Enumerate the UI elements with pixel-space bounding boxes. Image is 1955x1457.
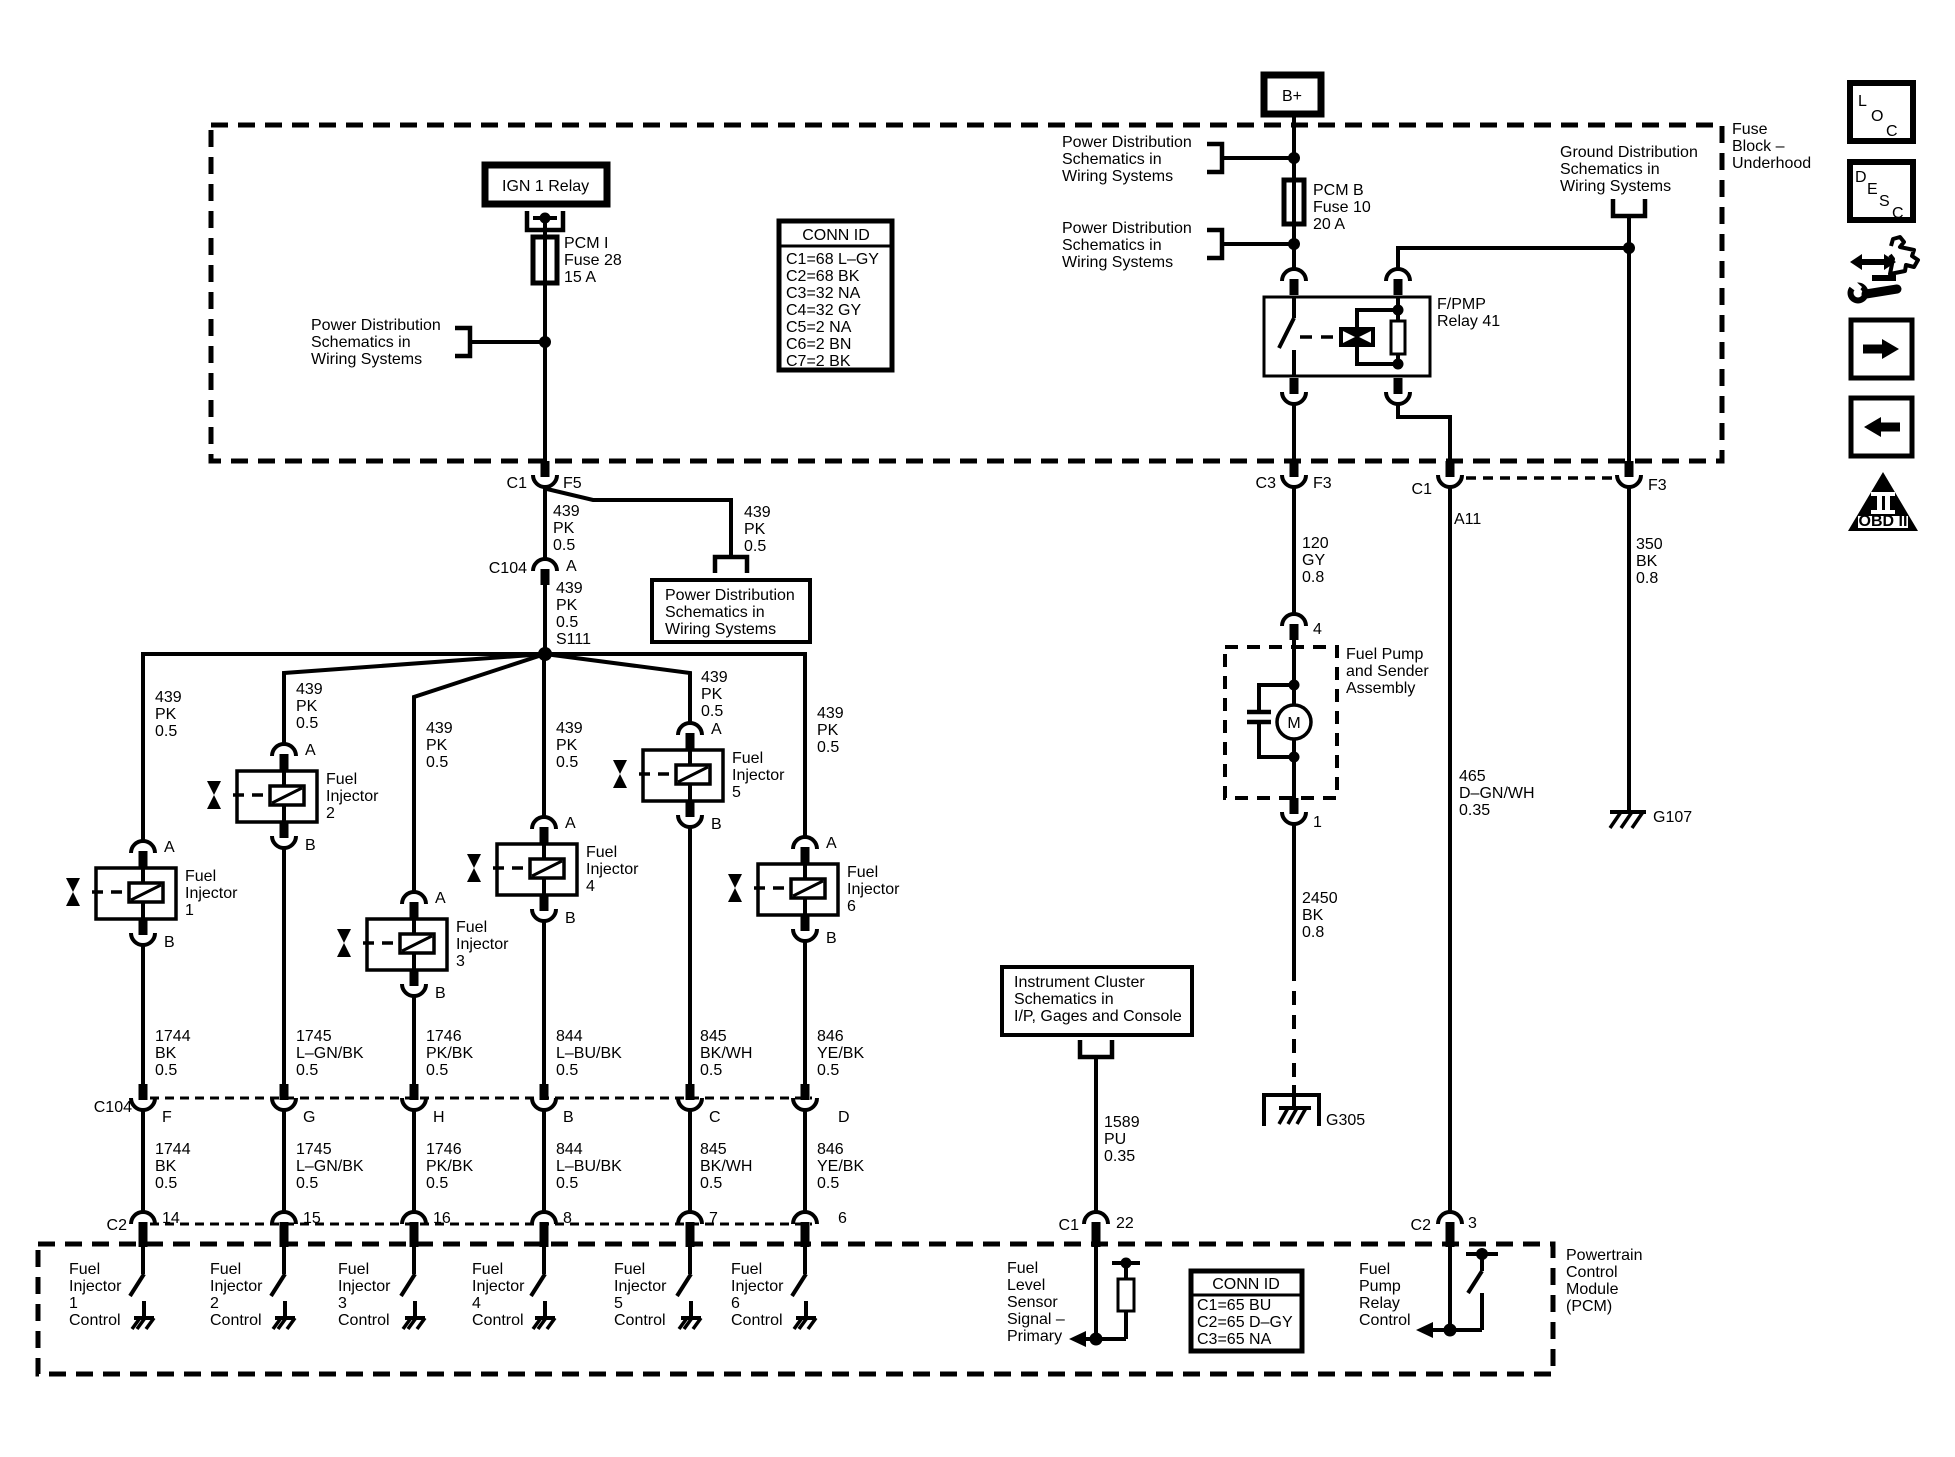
svg-text:2450: 2450 <box>1302 890 1338 907</box>
connector row C104 dashed line <box>150 1097 812 1100</box>
svg-text:Injector: Injector <box>69 1278 122 1295</box>
fuel injector 2 control switch <box>271 1247 285 1318</box>
ground distribution wire down to F3 <box>1627 216 1631 461</box>
svg-text:Fuel: Fuel <box>732 750 763 767</box>
svg-text:Relay 41: Relay 41 <box>1437 313 1500 330</box>
svg-text:F/PMP: F/PMP <box>1437 296 1486 313</box>
svg-text:15: 15 <box>303 1210 321 1227</box>
svg-text:Fuel: Fuel <box>210 1261 241 1278</box>
svg-text:Fuel: Fuel <box>338 1261 369 1278</box>
svg-text:6: 6 <box>731 1295 740 1312</box>
svg-text:0.8: 0.8 <box>1302 924 1324 941</box>
Instrument Cluster reference box <box>1002 967 1192 1035</box>
svg-text:Fuel: Fuel <box>185 868 216 885</box>
svg-text:Fuse 10: Fuse 10 <box>1313 199 1371 216</box>
Power Distribution Schematics in Wiring Systems reference box <box>652 580 810 642</box>
svg-text:C6=2 BN: C6=2 BN <box>786 336 851 353</box>
svg-text:Powertrain: Powertrain <box>1566 1247 1642 1264</box>
svg-text:C104: C104 <box>94 1099 132 1116</box>
svg-text:PK: PK <box>744 521 766 538</box>
ground (injector 2 control) <box>275 1316 295 1320</box>
svg-text:O: O <box>1871 108 1883 125</box>
wire injector 4 to C104 <box>542 921 546 1084</box>
svg-text:PK: PK <box>556 597 578 614</box>
svg-text:Wiring Systems: Wiring Systems <box>1560 178 1671 195</box>
ground (injector 5 control) <box>681 1316 701 1320</box>
wire S111 to injector 5 column <box>545 654 690 723</box>
wire injector 2 to C104 <box>282 848 286 1084</box>
svg-text:14: 14 <box>162 1210 180 1227</box>
svg-text:439: 439 <box>701 669 728 686</box>
svg-text:C2: C2 <box>1411 1217 1432 1234</box>
svg-text:C3=65 NA: C3=65 NA <box>1197 1331 1272 1348</box>
svg-text:Fuel: Fuel <box>847 864 878 881</box>
svg-text:Assembly: Assembly <box>1346 680 1415 697</box>
svg-text:Sensor: Sensor <box>1007 1294 1058 1311</box>
svg-text:Fuse: Fuse <box>1732 121 1768 138</box>
wire relay to C3/F3 <box>1292 404 1296 461</box>
svg-text:0.5: 0.5 <box>296 1175 318 1192</box>
svg-text:L: L <box>1858 93 1867 110</box>
svg-text:Underhood: Underhood <box>1732 155 1811 172</box>
wire S111 to injector 1 column <box>143 654 545 841</box>
svg-text:439: 439 <box>556 580 583 597</box>
junction dot <box>1623 242 1635 254</box>
ground (injector 4 control) <box>535 1316 555 1320</box>
svg-text:0.5: 0.5 <box>556 614 578 631</box>
connector C104 pin D <box>801 1084 810 1100</box>
svg-text:1744: 1744 <box>155 1141 191 1158</box>
svg-text:6: 6 <box>847 898 856 915</box>
wire 120 GY <box>1292 487 1296 614</box>
wire to C2 <box>141 1110 145 1212</box>
svg-text:YE/BK: YE/BK <box>817 1158 864 1175</box>
svg-text:439: 439 <box>296 681 323 698</box>
wire to C2 <box>542 1110 546 1212</box>
svg-text:Wiring Systems: Wiring Systems <box>311 351 422 368</box>
noise capacitor <box>1247 685 1294 757</box>
svg-text:16: 16 <box>433 1210 451 1227</box>
splice S111 <box>538 647 552 661</box>
svg-text:C3: C3 <box>1256 475 1277 492</box>
junction dot <box>1289 680 1300 691</box>
svg-text:Schematics in: Schematics in <box>1560 161 1660 178</box>
dashed connector link A11-F3 <box>1466 476 1613 480</box>
svg-text:Power Distribution: Power Distribution <box>1062 134 1192 151</box>
svg-text:PK: PK <box>426 737 448 754</box>
svg-text:4: 4 <box>1313 621 1322 638</box>
svg-text:Fuel: Fuel <box>456 919 487 936</box>
svg-text:7: 7 <box>709 1210 718 1227</box>
connector C1/F5 <box>541 461 550 477</box>
svg-text:0.8: 0.8 <box>1636 570 1658 587</box>
wire S111 to injector 3 column <box>414 654 545 892</box>
fuel injector 5 control switch <box>677 1247 691 1318</box>
svg-text:844: 844 <box>556 1028 583 1045</box>
svg-text:Fuel: Fuel <box>1007 1260 1038 1277</box>
svg-text:0.5: 0.5 <box>426 754 448 771</box>
svg-text:0.5: 0.5 <box>556 754 578 771</box>
svg-text:439: 439 <box>556 720 583 737</box>
wire into pump <box>1292 640 1296 705</box>
wire fuse to connector C1/F5 <box>543 283 547 461</box>
svg-text:Injector: Injector <box>456 936 509 953</box>
wire (unreferenced section, dashed) <box>1292 967 1296 1085</box>
svg-text:Fuel: Fuel <box>614 1261 645 1278</box>
svg-text:E: E <box>1867 181 1878 198</box>
svg-text:Relay: Relay <box>1359 1295 1400 1312</box>
svg-text:Control: Control <box>472 1312 524 1329</box>
svg-text:L–GN/BK: L–GN/BK <box>296 1158 364 1175</box>
svg-text:Instrument Cluster: Instrument Cluster <box>1014 974 1145 991</box>
svg-text:0.5: 0.5 <box>426 1062 448 1079</box>
svg-text:B: B <box>435 985 446 1002</box>
reference bracket <box>455 328 470 356</box>
svg-text:Schematics in: Schematics in <box>1014 991 1114 1008</box>
connector C104 pin F <box>139 1084 148 1100</box>
power feed B+ box <box>1264 75 1321 114</box>
svg-text:GY: GY <box>1302 552 1325 569</box>
svg-text:Ground Distribution: Ground Distribution <box>1560 144 1698 161</box>
svg-text:G: G <box>303 1109 315 1126</box>
svg-text:Schematics in: Schematics in <box>665 604 765 621</box>
terminal bar and junction dot <box>533 216 557 220</box>
connector F3 (ground wire) <box>1625 461 1634 477</box>
svg-text:439: 439 <box>426 720 453 737</box>
svg-text:B+: B+ <box>1282 88 1302 105</box>
svg-text:0.5: 0.5 <box>700 1062 722 1079</box>
svg-text:1: 1 <box>1313 814 1322 831</box>
svg-text:H: H <box>433 1109 445 1126</box>
svg-text:A: A <box>435 890 446 907</box>
svg-text:0.5: 0.5 <box>155 723 177 740</box>
svg-text:0.8: 0.8 <box>1302 569 1324 586</box>
svg-text:C: C <box>1886 123 1898 140</box>
svg-text:1744: 1744 <box>155 1028 191 1045</box>
connector C1/A11 <box>1446 461 1455 477</box>
svg-text:S111: S111 <box>556 631 591 648</box>
svg-text:F3: F3 <box>1313 475 1332 492</box>
icon LOC <box>1850 83 1913 141</box>
svg-text:439: 439 <box>817 705 844 722</box>
fuel injector 6 <box>728 837 838 941</box>
svg-text:B: B <box>711 816 722 833</box>
ground (injector 1 control) <box>134 1316 154 1320</box>
wire bracket to B+ wire <box>1222 156 1294 160</box>
junction dot <box>1288 238 1300 250</box>
icon DESC <box>1850 162 1913 222</box>
svg-text:PK: PK <box>556 737 578 754</box>
svg-text:Fuel: Fuel <box>731 1261 762 1278</box>
svg-text:C5=2 NA: C5=2 NA <box>786 319 852 336</box>
svg-text:Schematics in: Schematics in <box>311 334 411 351</box>
CONN ID table (PCM) <box>1191 1271 1302 1351</box>
svg-text:Fuel: Fuel <box>69 1261 100 1278</box>
wire bracket to main wire <box>470 340 545 344</box>
svg-text:Power Distribution: Power Distribution <box>311 317 441 334</box>
wire 439 PK to C104 <box>543 487 547 559</box>
connector C2 pin 14 <box>131 1212 155 1224</box>
fuel injector 2 <box>207 744 317 848</box>
svg-text:0.5: 0.5 <box>700 1175 722 1192</box>
svg-text:PK/BK: PK/BK <box>426 1045 473 1062</box>
svg-text:0.35: 0.35 <box>1459 802 1490 819</box>
svg-text:Schematics in: Schematics in <box>1062 151 1162 168</box>
ground (injector 3 control) <box>405 1316 425 1320</box>
svg-text:OBD II: OBD II <box>1859 513 1908 530</box>
svg-text:Injector: Injector <box>731 1278 784 1295</box>
wire injector 5 to C104 <box>688 827 692 1084</box>
svg-text:6: 6 <box>838 1210 847 1227</box>
svg-text:A11: A11 <box>1454 511 1481 528</box>
svg-text:BK/WH: BK/WH <box>700 1045 752 1062</box>
svg-text:Power Distribution: Power Distribution <box>1062 220 1192 237</box>
svg-text:Injector: Injector <box>614 1278 667 1295</box>
svg-text:439: 439 <box>744 504 771 521</box>
relay F/PMP Relay 41 <box>1264 269 1430 404</box>
svg-text:CONN ID: CONN ID <box>802 227 870 244</box>
wire C104 to splice S111 <box>543 585 547 654</box>
junction dot <box>539 336 551 348</box>
svg-text:1: 1 <box>185 902 194 919</box>
fuel injector 3 control switch <box>401 1247 415 1318</box>
svg-text:Control: Control <box>1566 1264 1618 1281</box>
svg-text:0.5: 0.5 <box>701 703 723 720</box>
svg-text:Injector: Injector <box>326 788 379 805</box>
signal arrow <box>1069 1331 1086 1347</box>
fuel pump relay driver switch <box>1466 1248 1498 1330</box>
svg-text:3: 3 <box>456 953 465 970</box>
wire motor to pin 1 <box>1292 739 1296 798</box>
svg-text:Injector: Injector <box>472 1278 525 1295</box>
svg-text:Wiring Systems: Wiring Systems <box>665 621 776 638</box>
wire injector 3 to C104 <box>412 996 416 1084</box>
IGN 1 Relay box <box>485 165 607 204</box>
svg-text:844: 844 <box>556 1141 583 1158</box>
CONN ID table (C104) <box>779 221 892 370</box>
connector C2 pin 8 <box>532 1212 556 1224</box>
reference bracket <box>1207 230 1222 258</box>
svg-text:C2=68 BK: C2=68 BK <box>786 268 860 285</box>
svg-text:PK/BK: PK/BK <box>426 1158 473 1175</box>
svg-text:B: B <box>563 1109 574 1126</box>
wire S111 to injector 6 column <box>545 654 805 837</box>
svg-text:439: 439 <box>553 503 580 520</box>
wire relay to fuse <box>543 218 547 239</box>
svg-text:0.5: 0.5 <box>556 1062 578 1079</box>
fuel injector 4 <box>467 817 577 921</box>
svg-text:846: 846 <box>817 1028 844 1045</box>
svg-text:0.5: 0.5 <box>426 1175 448 1192</box>
svg-text:3: 3 <box>1468 1215 1477 1232</box>
icon OBD II <box>1848 472 1918 531</box>
svg-text:A: A <box>164 839 175 856</box>
svg-text:0.5: 0.5 <box>556 1175 578 1192</box>
svg-text:1745: 1745 <box>296 1028 332 1045</box>
svg-text:A: A <box>711 721 722 738</box>
connector row C2 dashed line <box>150 1223 812 1226</box>
svg-text:PCM I: PCM I <box>564 235 608 252</box>
svg-text:C2=65 D–GY: C2=65 D–GY <box>1197 1314 1293 1331</box>
reference bracket <box>1613 199 1645 216</box>
svg-text:Wiring Systems: Wiring Systems <box>1062 168 1173 185</box>
connector C104 pin G <box>280 1084 289 1100</box>
wire relay to C1/A11 <box>1398 404 1450 461</box>
fuel pump motor M <box>1277 705 1311 739</box>
svg-text:PK: PK <box>553 520 575 537</box>
svg-text:Fuel: Fuel <box>1359 1261 1390 1278</box>
svg-text:0.5: 0.5 <box>817 1175 839 1192</box>
svg-text:Fuel: Fuel <box>326 771 357 788</box>
svg-text:(PCM): (PCM) <box>1566 1298 1612 1315</box>
svg-text:15 A: 15 A <box>564 269 596 286</box>
fuel injector 6 control switch <box>792 1247 806 1318</box>
svg-text:PCM B: PCM B <box>1313 182 1364 199</box>
reference bracket <box>1207 144 1222 172</box>
svg-text:C1: C1 <box>507 475 528 492</box>
svg-text:C104: C104 <box>489 560 527 577</box>
svg-text:C: C <box>1892 205 1904 222</box>
svg-text:G305: G305 <box>1326 1112 1365 1129</box>
svg-text:D: D <box>1855 169 1867 186</box>
svg-text:B: B <box>305 837 316 854</box>
svg-text:Injector: Injector <box>210 1278 263 1295</box>
connector C2 pin 6 <box>793 1212 817 1224</box>
wire S111 to injector 2 column <box>284 654 545 744</box>
svg-text:B: B <box>164 934 175 951</box>
svg-text:Control: Control <box>731 1312 783 1329</box>
wire 2450 BK <box>1292 824 1296 967</box>
svg-text:Fuel Pump: Fuel Pump <box>1346 646 1423 663</box>
svg-text:S: S <box>1879 193 1890 210</box>
svg-text:0.5: 0.5 <box>296 715 318 732</box>
svg-text:Fuel: Fuel <box>586 844 617 861</box>
connector C104 pin C <box>686 1084 695 1100</box>
wire relay coil feed to ground distribution wire <box>1398 248 1629 269</box>
svg-text:M: M <box>1287 715 1300 732</box>
connector pin 1 <box>1290 798 1299 814</box>
svg-text:0.5: 0.5 <box>296 1062 318 1079</box>
svg-text:C7=2 BK: C7=2 BK <box>786 353 851 370</box>
svg-text:C1=68 L–GY: C1=68 L–GY <box>786 251 879 268</box>
svg-text:C4=32 GY: C4=32 GY <box>786 302 861 319</box>
svg-text:C1=65 BU: C1=65 BU <box>1197 1297 1271 1314</box>
svg-text:Control: Control <box>69 1312 121 1329</box>
svg-text:Level: Level <box>1007 1277 1045 1294</box>
svg-text:Primary: Primary <box>1007 1328 1062 1345</box>
svg-text:A: A <box>305 742 316 759</box>
svg-text:439: 439 <box>155 689 182 706</box>
driver output arrow <box>1416 1322 1433 1338</box>
connector C1/22 <box>1084 1212 1108 1224</box>
fuel injector 5 <box>613 723 723 827</box>
wire injector 6 to C104 <box>803 941 807 1084</box>
connector C2 pin 15 <box>272 1212 296 1224</box>
svg-text:Pump: Pump <box>1359 1278 1401 1295</box>
junction dot <box>1090 1333 1103 1346</box>
fuse block underhood dashed box <box>211 125 1722 461</box>
svg-text:PK: PK <box>155 706 177 723</box>
svg-text:120: 120 <box>1302 535 1329 552</box>
svg-text:PK: PK <box>817 722 839 739</box>
svg-text:Injector: Injector <box>185 885 238 902</box>
svg-text:L–BU/BK: L–BU/BK <box>556 1045 622 1062</box>
svg-text:22: 22 <box>1116 1215 1134 1232</box>
connector pin 4 <box>1282 614 1306 626</box>
svg-text:5: 5 <box>732 784 741 801</box>
svg-text:C1: C1 <box>1412 481 1433 498</box>
svg-text:1589: 1589 <box>1104 1114 1140 1131</box>
fuse PCM I Fuse 28 15A <box>533 237 557 283</box>
svg-text:20 A: 20 A <box>1313 216 1345 233</box>
svg-text:465: 465 <box>1459 768 1486 785</box>
svg-text:D: D <box>838 1109 850 1126</box>
svg-text:C3=32 NA: C3=32 NA <box>786 285 861 302</box>
ground G305 <box>1264 1095 1319 1126</box>
wire injector 1 to C104 <box>141 945 145 1084</box>
wire to C2 <box>282 1110 286 1212</box>
ground G107 <box>1610 812 1646 828</box>
svg-text:Injector: Injector <box>586 861 639 878</box>
svg-text:C: C <box>709 1109 721 1126</box>
svg-text:Control: Control <box>1359 1312 1411 1329</box>
svg-text:0.5: 0.5 <box>553 537 575 554</box>
svg-text:Injector: Injector <box>338 1278 391 1295</box>
svg-text:A: A <box>826 835 837 852</box>
wire to C2 <box>688 1110 692 1212</box>
svg-text:1745: 1745 <box>296 1141 332 1158</box>
wire C2/3 into PCM <box>1448 1247 1452 1330</box>
icon forward arrow <box>1851 320 1912 378</box>
relay socket terminal bracket <box>527 211 563 230</box>
svg-text:PU: PU <box>1104 1131 1126 1148</box>
svg-text:C2: C2 <box>107 1217 128 1234</box>
svg-text:0.5: 0.5 <box>155 1175 177 1192</box>
svg-text:Control: Control <box>338 1312 390 1329</box>
svg-text:Fuse 28: Fuse 28 <box>564 252 622 269</box>
fuel injector 3 <box>337 892 447 996</box>
svg-text:B: B <box>826 930 837 947</box>
svg-text:I/P, Gages and Console: I/P, Gages and Console <box>1014 1008 1182 1025</box>
connector C2 pin 7 <box>678 1212 702 1224</box>
pull-up resistor <box>1112 1258 1140 1340</box>
svg-text:BK/WH: BK/WH <box>700 1158 752 1175</box>
svg-text:1: 1 <box>69 1295 78 1312</box>
connector C104 pin B <box>540 1084 549 1100</box>
svg-text:BK: BK <box>1302 907 1324 924</box>
svg-text:845: 845 <box>700 1141 727 1158</box>
svg-text:2: 2 <box>210 1295 219 1312</box>
connector C2 pin 16 <box>402 1212 426 1224</box>
svg-text:BK: BK <box>155 1045 177 1062</box>
svg-text:0.35: 0.35 <box>1104 1148 1135 1165</box>
svg-text:D–GN/WH: D–GN/WH <box>1459 785 1535 802</box>
svg-text:Power Distribution: Power Distribution <box>665 587 795 604</box>
svg-text:A: A <box>566 558 577 575</box>
svg-text:Schematics in: Schematics in <box>1062 237 1162 254</box>
svg-text:BK: BK <box>1636 553 1658 570</box>
svg-text:PK: PK <box>701 686 723 703</box>
svg-text:0.5: 0.5 <box>744 538 766 555</box>
wire C1/22 into PCM <box>1094 1247 1098 1339</box>
svg-text:G107: G107 <box>1653 809 1692 826</box>
connector C104/A <box>533 559 557 571</box>
fuel injector 1 <box>66 841 176 945</box>
icon back arrow <box>1851 398 1912 456</box>
svg-text:1746: 1746 <box>426 1141 462 1158</box>
svg-text:B: B <box>565 910 576 927</box>
svg-text:BK: BK <box>155 1158 177 1175</box>
